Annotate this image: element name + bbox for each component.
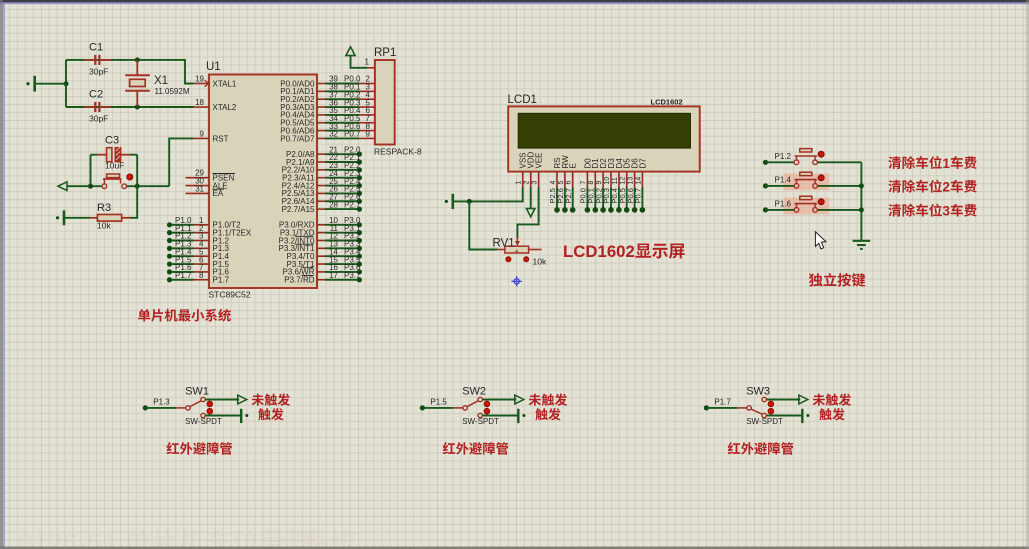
wire net P1.5 [170, 263, 194, 265]
terminal bar (SW1) [240, 409, 242, 423]
terminal dot P2.3 [357, 175, 362, 180]
overline INT0 (P3.2) [295, 235, 314, 237]
pin 29 PSEN (U1 left) [186, 177, 210, 179]
terminal arrow right (SW1) [238, 395, 247, 404]
terminal dot LCD pin 8 [593, 207, 599, 213]
svg-text:P2.7/A15: P2.7/A15 [282, 205, 315, 214]
wire net P3.4 [325, 255, 359, 257]
annotation 清除车位1车费 [888, 156, 901, 169]
svg-text:▲: ▲ [514, 248, 518, 253]
origin marker (blue crosshair) [511, 276, 522, 287]
mouse cursor [815, 232, 826, 249]
terminal dot P3.3 [357, 246, 362, 251]
wire net P2.3 [325, 177, 359, 179]
svg-text:31: 31 [195, 184, 204, 193]
pin 25 P2.4/A12 (U1 right) [317, 185, 325, 187]
svg-text:P1.3: P1.3 [153, 397, 170, 406]
pin 13 P3.3/INT1 (U1 right) [317, 247, 325, 249]
wire net P1.2 [170, 240, 194, 242]
svg-text:SW-SPDT: SW-SPDT [462, 417, 499, 426]
sheet border blue lines [0, 3, 1029, 5]
terminal dot P2.4 [357, 183, 362, 188]
switch SW3 actuator dots [768, 401, 774, 407]
svg-text:18: 18 [195, 98, 204, 107]
svg-text:11: 11 [612, 177, 619, 184]
pin 37 P0.2/AD2 (U1 right) [317, 98, 325, 100]
svg-text:LCD1: LCD1 [508, 94, 537, 106]
svg-text:32: 32 [329, 130, 338, 139]
pin 34 P0.5/AD5 (U1 right) [317, 122, 325, 124]
capacitor C3 (10uF electrolytic) [97, 154, 106, 156]
wire net P0.5 to RP1 [325, 122, 359, 124]
resistor R3 [65, 217, 90, 219]
pin 11 stub (LCD1) [618, 172, 620, 188]
pin 4 stub (LCD1) [556, 172, 558, 188]
annotation 清除车位2车费 [888, 180, 901, 193]
svg-text:U1: U1 [206, 61, 221, 73]
svg-text:LCD1602: LCD1602 [563, 242, 635, 261]
annotation 红外避障管 SW1 [166, 442, 179, 454]
wire LCD pin 12 down [626, 188, 628, 210]
svg-text:RESPACK-8: RESPACK-8 [374, 147, 422, 157]
wire SW2 upper throw [482, 399, 516, 401]
svg-text:SW2: SW2 [462, 386, 486, 398]
svg-text:10uF: 10uF [105, 161, 124, 171]
pin 8 (RP1) [359, 130, 375, 132]
terminal dot P2.2 [357, 167, 362, 172]
wire ground to RV1 left [469, 201, 497, 249]
wire net P0.3 to RP1 [325, 106, 359, 108]
terminal dot P1.1 [167, 230, 172, 235]
terminal dot P1.2 [763, 160, 768, 165]
red actuator dot P1.4 [818, 175, 824, 181]
pin 2 (RP1) [359, 83, 375, 85]
pin 14 stub (LCD1) [641, 172, 643, 188]
pin 2 stub (LCD1) [530, 172, 532, 188]
svg-text:1: 1 [942, 156, 950, 171]
resistor pack RP1 body [375, 60, 395, 145]
svg-text:6: 6 [566, 181, 573, 185]
pin 8 P1.7 (U1 left) [194, 279, 210, 281]
terminal dot P3.2 [357, 238, 362, 243]
terminal dot LCD pin 11 [616, 207, 622, 213]
svg-text:10k: 10k [533, 257, 547, 267]
pin 9 stub (LCD1) [602, 172, 604, 188]
pin 6 stub (LCD1) [572, 172, 574, 188]
wire net P3.1 [325, 232, 359, 234]
terminal bar (SW2) [517, 409, 519, 423]
wire net P0.1 to RP1 [325, 90, 359, 92]
svg-text:0126-51: 0126-51 [18, 528, 117, 549]
wire SW2 lower throw [482, 415, 517, 417]
junction dot crystal bottom [135, 105, 140, 110]
wire LCD pin 11 down [618, 188, 620, 210]
pin 5 (RP1) [359, 106, 375, 108]
svg-text:P0.7/AD7: P0.7/AD7 [280, 134, 315, 143]
red actuator dot of reset button [127, 174, 133, 180]
pin 9 RST (U1 left) [194, 137, 210, 139]
pin 27 P2.6/A14 (U1 right) [317, 200, 325, 202]
pin 22 P2.1/A9 (U1 right) [317, 161, 325, 163]
pin 16 P3.6/WR (U1 right) [317, 271, 325, 273]
svg-text:SW-SPDT: SW-SPDT [185, 417, 222, 426]
wire LCD pin 5 down [564, 188, 566, 210]
pin 3 P1.2 (U1 left) [194, 240, 210, 242]
wire net P3.5 [325, 263, 359, 265]
terminal dot P2.1 [357, 159, 362, 164]
terminal dot LCD pin 7 [585, 207, 591, 213]
wire LCD pin 13 down [634, 188, 636, 210]
red actuator dot P1.6 [818, 199, 824, 205]
wire C3 right vertical [130, 154, 137, 156]
overline WR (P3.6) [302, 267, 314, 269]
pin 4 P1.3 (U1 left) [194, 247, 210, 249]
svg-text:2: 2 [942, 179, 950, 194]
pin 12 stub (LCD1) [626, 172, 628, 188]
junction dot bus P1.4 [859, 183, 864, 188]
push button P1.6 [794, 208, 799, 213]
wire LCD pin 4 down [556, 188, 558, 210]
wire net P2.0 [325, 153, 359, 155]
wire net P1.1 [170, 232, 194, 234]
wire LCD pin 9 down [602, 188, 604, 210]
svg-text:D7: D7 [638, 158, 647, 169]
overline EA [213, 188, 225, 190]
terminal dot P3.0 [357, 222, 362, 227]
capacitor C1 [84, 59, 94, 61]
wire net P2.4 [325, 185, 359, 187]
junction dot crystal top [135, 57, 140, 62]
svg-text:P0.7: P0.7 [344, 130, 361, 139]
wire net P1.6 [170, 271, 194, 273]
pin 17 P3.7/RD (U1 right) [317, 279, 325, 281]
wire VEE to RV1 wiper [517, 188, 538, 239]
svg-text:SW-SPDT: SW-SPDT [746, 417, 783, 426]
svg-text:8: 8 [199, 271, 204, 280]
terminal arrow right (SW2) [515, 395, 524, 404]
svg-text:C1: C1 [89, 42, 103, 54]
wire net P2.2 [325, 169, 359, 171]
annotation 触发 [535, 408, 547, 420]
svg-text:9: 9 [366, 130, 371, 139]
wire net P3.6 [325, 271, 359, 273]
wire net P2.6 [325, 200, 359, 202]
wire net P3.7 [325, 279, 359, 281]
switch SW1 actuator dots [207, 401, 213, 407]
terminal dot P3.6 [357, 269, 362, 274]
terminal dot P1.6 [167, 269, 172, 274]
wire net P1.7 [170, 279, 194, 281]
ground symbol buttons [853, 241, 871, 249]
terminal dot LCD pin 10 [608, 207, 614, 213]
pin 6 P1.5 (U1 left) [194, 263, 210, 265]
pin 28 P2.7/A15 (U1 right) [317, 208, 325, 210]
annotation 未触发 [252, 394, 264, 406]
svg-text:8: 8 [588, 181, 595, 185]
RV1 wiper arrow [516, 237, 518, 242]
pin 21 P2.0/A8 (U1 right) [317, 153, 325, 155]
svg-text:9: 9 [596, 181, 603, 185]
pin 1 (RP1) [367, 67, 375, 69]
wire SW1 lower throw [205, 415, 240, 417]
pin 3 stub (LCD1) [538, 172, 540, 188]
wire C3 left vertical [91, 154, 98, 156]
wire LCD pin 7 down [586, 188, 588, 210]
overline INT1 (P3.3) [295, 243, 314, 245]
pin 10 P3.0/RXD (U1 right) [317, 224, 325, 226]
svg-text:3: 3 [942, 203, 950, 218]
svg-text:LCD1602: LCD1602 [651, 98, 683, 107]
svg-text:11.0592M: 11.0592M [155, 87, 190, 96]
terminal dot P2.0 [357, 152, 362, 157]
terminal dot P1.7 [167, 277, 172, 282]
terminal dot LCD pin 4 [554, 207, 560, 213]
annotation 独立按键 [809, 273, 823, 286]
capacitor C2 [84, 106, 94, 108]
svg-text:VEE: VEE [535, 152, 544, 168]
wire net P0.2 to RP1 [325, 98, 359, 100]
svg-text:EA: EA [213, 189, 224, 198]
edge shading [0, 547, 1029, 549]
annotation 红外避障管 SW3 [728, 442, 741, 454]
svg-text:P0.7: P0.7 [634, 188, 643, 203]
ground symbol at R3 [63, 210, 66, 225]
wire LCD pin 10 down [610, 188, 612, 210]
svg-text:P2.7: P2.7 [564, 188, 573, 203]
svg-text:P3.7: P3.7 [344, 271, 361, 280]
terminal arrow left (reset net) [58, 182, 67, 191]
wire VSS to ground [453, 188, 523, 202]
svg-text:P1.2: P1.2 [775, 152, 792, 161]
pin 5 stub (LCD1) [564, 172, 566, 188]
push button P1.2 [794, 160, 799, 165]
pin 5 P1.4 (U1 left) [194, 255, 210, 257]
wire net P0.6 to RP1 [325, 130, 359, 132]
switch SW3 (SW-SPDT) [747, 406, 751, 410]
svg-text:P1.6: P1.6 [775, 200, 792, 209]
annotation 未触发 [529, 394, 541, 406]
svg-text:X1: X1 [154, 75, 168, 87]
terminal arrow right (SW3) [799, 395, 808, 404]
pin 33 P0.6/AD6 (U1 right) [317, 130, 325, 132]
wire button P1.6 to bus [817, 209, 861, 211]
svg-text:2: 2 [524, 181, 531, 185]
red actuator dot P1.2 [818, 151, 824, 157]
wire button right to RST riser [127, 185, 170, 187]
pin 39 P0.0/AD0 (U1 right) [317, 83, 325, 85]
svg-text:10k: 10k [97, 221, 111, 231]
terminal dot P1.2 [167, 238, 172, 243]
wire P1.2 to button [766, 161, 795, 163]
svg-text:5: 5 [558, 181, 565, 185]
pin 18 XTAL2 (U1 left) [194, 106, 210, 108]
wire LCD pin 6 down [572, 188, 574, 210]
pin 4 (RP1) [359, 98, 375, 100]
pin 10 stub (LCD1) [610, 172, 612, 188]
annotation 触发 [258, 408, 270, 420]
wire net P3.2 [325, 240, 359, 242]
pin 15 P3.5/T1 (U1 right) [317, 263, 325, 265]
wire net P1.0 [170, 224, 194, 226]
pin 1 stub (LCD1) [522, 172, 524, 188]
pin 8 stub (LCD1) [594, 172, 596, 188]
svg-text:13: 13 [628, 177, 635, 185]
wire VDD to power [530, 188, 532, 210]
terminal dot P1.5 [167, 261, 172, 266]
terminal dot LCD pin 9 [600, 207, 606, 213]
selection highlight P1.6 [783, 198, 829, 215]
overline RD (P3.7) [302, 275, 314, 277]
pin 26 P2.5/A13 (U1 right) [317, 192, 325, 194]
wire RP1 pin1 to VCC [351, 56, 368, 68]
pin 35 P0.4/AD4 (U1 right) [317, 114, 325, 116]
svg-text:4: 4 [550, 181, 557, 185]
op-amp U1 body (STC89C52 MCU) [209, 75, 317, 289]
switch SW2 actuator dots [484, 401, 490, 407]
svg-text:RV1: RV1 [493, 238, 515, 250]
svg-text:SW1: SW1 [185, 386, 209, 398]
svg-text:7: 7 [580, 181, 587, 185]
wire arrow to button [67, 185, 102, 187]
RV1 adjust dots [506, 257, 511, 262]
svg-text:P1.5: P1.5 [430, 397, 447, 406]
terminal dot P2.5 [357, 191, 362, 196]
annotation 触发 [819, 408, 831, 420]
wire RST riser [169, 138, 193, 186]
wire net P3.3 [325, 247, 359, 249]
svg-text:RP1: RP1 [374, 47, 396, 59]
wire P1.6 to button [766, 209, 795, 211]
svg-text:28: 28 [329, 200, 338, 209]
reset push button [102, 184, 107, 189]
svg-text:19: 19 [195, 75, 204, 84]
svg-text:SW3: SW3 [746, 386, 770, 398]
pin 7 P1.6 (U1 left) [194, 271, 210, 273]
switch SW2 (SW-SPDT) [463, 406, 467, 410]
pin 31 EA (U1 left) [186, 192, 210, 194]
terminal dot LCD pin 12 [624, 207, 630, 213]
svg-text:RST: RST [213, 134, 229, 143]
svg-text:14: 14 [635, 177, 642, 185]
pin 19 XTAL1 (U1 left) [194, 83, 210, 85]
pin 36 P0.3/AD3 (U1 right) [317, 106, 325, 108]
svg-text:12: 12 [620, 177, 627, 185]
push button P1.4 [794, 184, 799, 189]
pin 38 P0.1/AD1 (U1 right) [317, 90, 325, 92]
svg-text:P1.7: P1.7 [213, 276, 230, 285]
svg-text:E: E [569, 163, 578, 168]
wire P1.4 to button [766, 185, 795, 187]
svg-text:P1.7: P1.7 [175, 271, 192, 280]
wire button P1.4 to bus [817, 185, 861, 187]
svg-text:XTAL2: XTAL2 [213, 103, 237, 112]
pin 32 P0.7/AD7 (U1 right) [317, 137, 325, 139]
LCD screen area [518, 113, 690, 148]
wire net P3.0 [325, 224, 359, 226]
wire net P1.3 [170, 247, 194, 249]
wire net P0.4 to RP1 [325, 114, 359, 116]
faint watermark bottom [18, 528, 356, 549]
svg-text:1: 1 [365, 58, 370, 67]
wire P1.7 to switch SW3 [706, 407, 737, 409]
potentiometer RV1 [497, 249, 505, 251]
junction dot ground left [64, 81, 69, 86]
terminal dot P1.5 [420, 405, 425, 410]
svg-text:XTAL1: XTAL1 [213, 79, 237, 88]
wire P1.5 to switch SW2 [422, 407, 453, 409]
pin 12 P3.2/INT0 (U1 right) [317, 240, 325, 242]
wire P1.3 to switch SW1 [145, 407, 176, 409]
terminal dot P1.0 [167, 222, 172, 227]
svg-text:R3: R3 [97, 202, 111, 214]
terminal dot P1.4 [763, 183, 768, 188]
wire net P0.0 to RP1 [325, 83, 359, 85]
junction dot C3 left / button [88, 184, 93, 189]
wire button ground bus [860, 162, 862, 240]
terminal dot LCD pin 6 [570, 207, 576, 213]
terminal dot LCD pin 14 [640, 207, 646, 213]
svg-text:30pF: 30pF [89, 114, 108, 124]
switch SW1 (SW-SPDT) [186, 406, 190, 410]
junction dot bus P1.6 [859, 207, 864, 212]
ground symbol left of C1/C2 [36, 83, 66, 85]
svg-text:3: 3 [532, 181, 539, 185]
svg-text:1: 1 [516, 181, 523, 185]
terminal dot P1.4 [167, 254, 172, 259]
pin 2 P1.1 (U1 left) [194, 232, 210, 234]
pin 24 P2.3/A11 (U1 right) [317, 177, 325, 179]
terminal dot P2.6 [357, 199, 362, 204]
pin 30 ALE (U1 left) [186, 185, 210, 187]
junction dot button right [135, 184, 140, 189]
svg-text:P2.7: P2.7 [344, 200, 361, 209]
svg-text:STC89C52: STC89C52 [209, 290, 251, 300]
crystal X1 [136, 60, 138, 75]
junction dot VSS/RV1 [467, 199, 472, 204]
LCD1 body (LCD1602 display) [508, 106, 700, 171]
selection highlight P1.4 [783, 174, 829, 191]
pin 7 stub (LCD1) [586, 172, 588, 188]
wire left vertical C1-C2 [65, 60, 67, 107]
terminal dot P1.3 [143, 405, 148, 410]
power symbol VCC at RP1 [346, 47, 355, 56]
pin 3 (RP1) [359, 90, 375, 92]
pin 7 (RP1) [359, 122, 375, 124]
overline PSEN [213, 173, 236, 175]
wire net P2.1 [325, 161, 359, 163]
wire LCD pin 14 down [641, 188, 643, 210]
annotation 单片机最小系统 [138, 309, 150, 322]
wire XTAL1 net top [66, 60, 194, 84]
annotation 未触发 [813, 394, 825, 406]
pin 14 P3.4/T0 (U1 right) [317, 255, 325, 257]
svg-text:9: 9 [200, 129, 205, 138]
wire LCD pin 8 down [594, 188, 596, 210]
terminal dot P3.7 [357, 277, 362, 282]
wire button P1.2 to bus [817, 161, 861, 163]
terminal dot P3.5 [357, 261, 362, 266]
wire net P2.5 [325, 192, 359, 194]
wire SW3 upper throw [766, 399, 800, 401]
annotation 红外避障管 SW2 [443, 442, 456, 454]
pin 23 P2.2/A10 (U1 right) [317, 169, 325, 171]
svg-text:17: 17 [329, 271, 338, 280]
svg-text:P1.4: P1.4 [775, 176, 792, 185]
pin 1 P1.0 (U1 left) [194, 224, 210, 226]
pin 6 (RP1) [359, 114, 375, 116]
annotation 清除车位3车费 [888, 204, 901, 217]
ground symbol LCD VSS [451, 194, 454, 209]
